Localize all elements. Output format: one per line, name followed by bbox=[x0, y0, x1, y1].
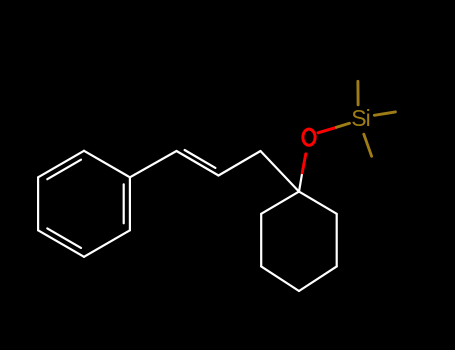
wire ring edge TL-T bbox=[38, 151, 84, 178]
wire ring edge LD-LU bbox=[260, 214, 262, 267]
wire ring edge T-TR bbox=[84, 151, 130, 178]
double bond second line V1=V2 bbox=[185, 150, 216, 168]
double bond inner line TL-T bbox=[47, 160, 81, 180]
vinyl chain Ph-CH=CH-CH2- bbox=[130, 150, 299, 192]
wire ring edge B-BL bbox=[38, 230, 84, 256]
cyclohexane ring on C1 bbox=[261, 192, 337, 291]
bond O-Si gold half bbox=[337, 123, 350, 127]
double bond inner line TR-BR bbox=[123, 184, 125, 223]
wire ring edge C1-RU bbox=[299, 192, 337, 214]
bond Si-CH3 right bbox=[374, 112, 395, 115]
benzene ring C6H5 bbox=[38, 151, 130, 257]
wire ring edge LU-C1 bbox=[261, 192, 299, 214]
atom O (ether oxygen) bbox=[303, 129, 315, 145]
wire ring edge RD-B2 bbox=[299, 266, 337, 291]
double bond inner line B-BL bbox=[47, 228, 81, 248]
wire ring edge BR-B bbox=[84, 230, 130, 256]
wire bond ring TR to V1 bbox=[130, 151, 177, 177]
wire ring edge TR-BR bbox=[129, 177, 131, 230]
wire bond V3 to C1 bbox=[261, 151, 300, 192]
bond O-Si red half bbox=[318, 127, 337, 133]
svg-text:Si: Si bbox=[351, 105, 371, 131]
wire bond V2 to V3 bbox=[219, 151, 261, 176]
wire ring edge RU-RD bbox=[336, 214, 338, 267]
bond C1-O white half bbox=[299, 173, 302, 192]
wire ring edge B2-LD bbox=[261, 266, 299, 291]
bond C1-O red half bbox=[302, 154, 306, 173]
wire ring edge BL-TL bbox=[37, 177, 39, 230]
wire bond V1=V2 main line bbox=[177, 151, 219, 176]
bond Si-CH3 up bbox=[356, 81, 359, 105]
bond Si-CH3 down bbox=[364, 134, 372, 156]
